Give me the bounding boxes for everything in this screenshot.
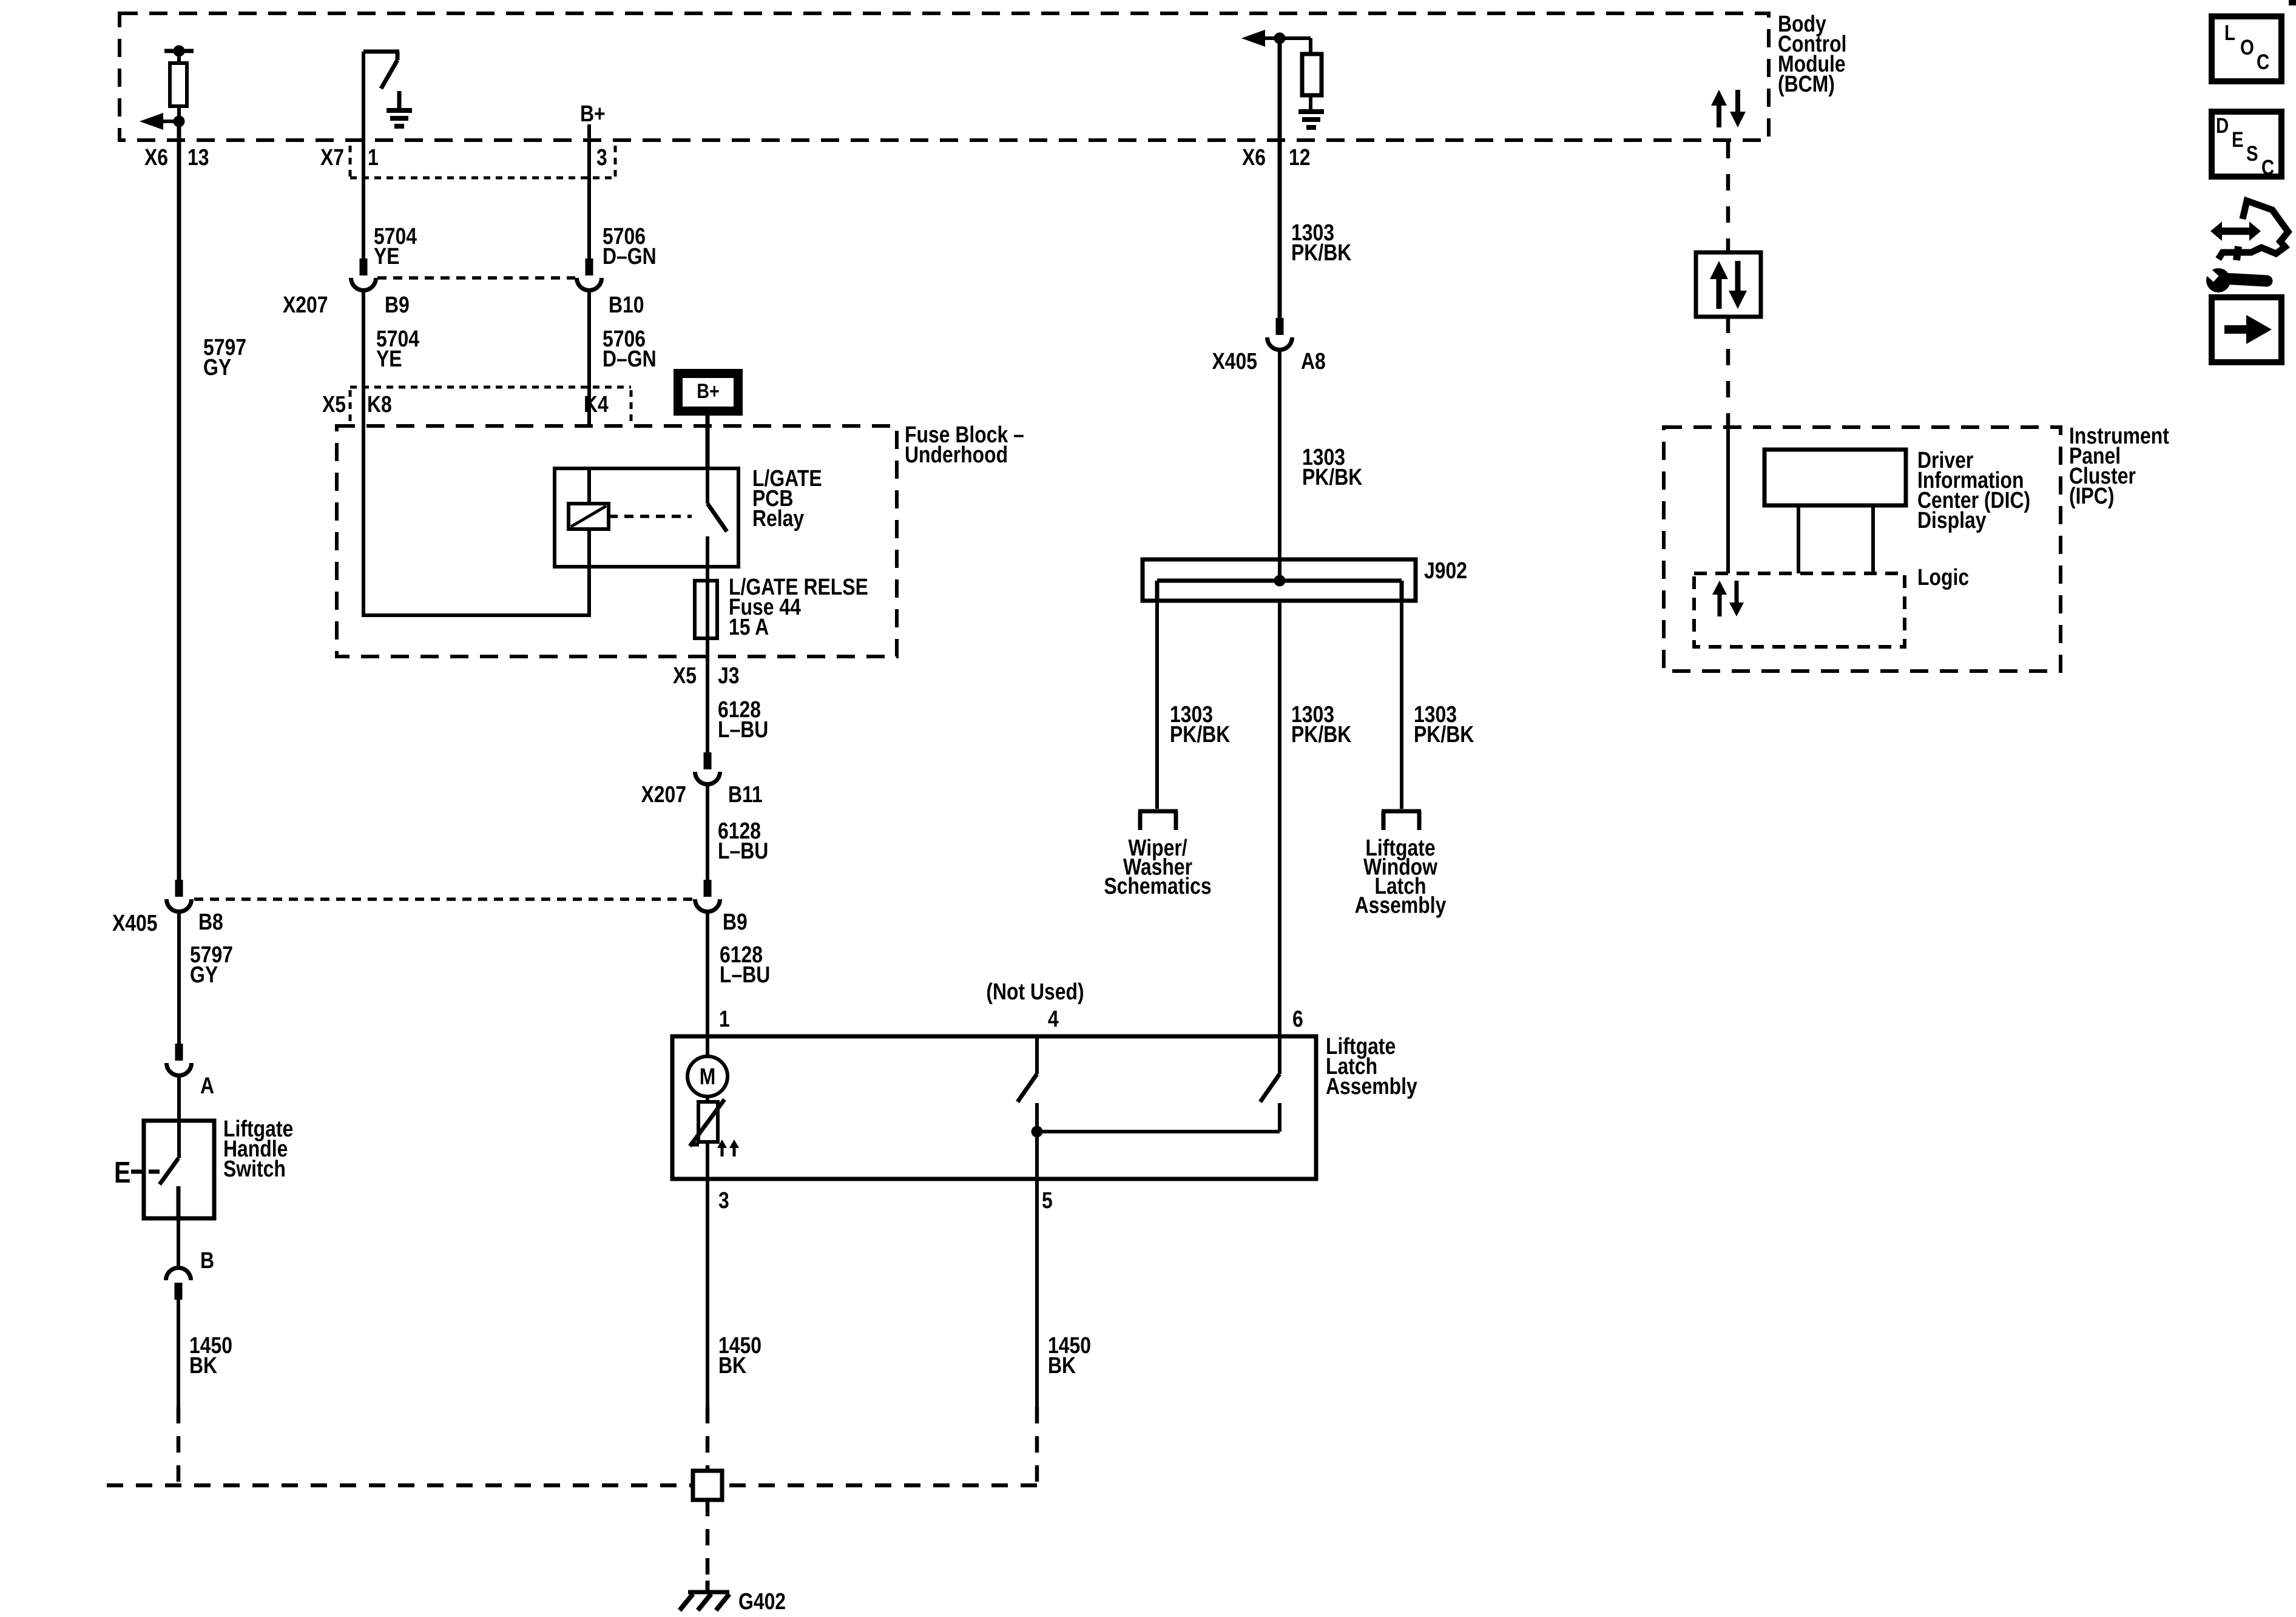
svg-text:X207: X207	[283, 292, 328, 317]
svg-text:X405: X405	[1212, 348, 1257, 374]
junction dot	[1274, 33, 1286, 44]
fuse L/GATE RELSE Fuse 44 15A	[695, 581, 717, 638]
svg-text:(IPC): (IPC)	[2069, 483, 2114, 508]
dashed connector tie X207	[377, 276, 575, 280]
svg-text:PK/BK: PK/BK	[1170, 721, 1230, 747]
svg-text:B8: B8	[198, 909, 223, 934]
latch switch pin 4	[1018, 1036, 1037, 1179]
svg-text:X6: X6	[144, 144, 168, 170]
Liftgate Handle Switch box	[144, 1121, 214, 1218]
connector X207 B11	[695, 752, 720, 785]
connector X5 pin labels K8,K4	[322, 391, 609, 417]
svg-text:Display: Display	[1917, 507, 1987, 533]
svg-text:PK/BK: PK/BK	[1291, 240, 1351, 265]
logic arrows	[1712, 581, 1744, 616]
relay coil	[569, 468, 609, 615]
svg-text:L–BU: L–BU	[720, 962, 770, 987]
connector X207 B11 labels	[641, 781, 762, 807]
wire label 5704 YE (lower)	[376, 326, 419, 371]
svg-text:D–GN: D–GN	[603, 243, 657, 269]
latch switch pin 6	[1260, 1036, 1280, 1132]
wire label 5704 YE (upper)	[374, 223, 417, 269]
svg-text:Switch: Switch	[223, 1156, 286, 1181]
resistor (BCM internal, X6-13 output)	[164, 46, 194, 122]
label: Body Control Module (BCM)	[1778, 11, 1846, 96]
svg-text:12: 12	[1289, 144, 1311, 170]
wire label 6128 L-BU (3)	[720, 942, 770, 987]
wire X7-3 down	[587, 124, 591, 258]
pin B label	[200, 1247, 214, 1273]
wire A to switch	[177, 1076, 181, 1158]
svg-text:6: 6	[1292, 1006, 1303, 1031]
svg-text:S: S	[2246, 142, 2258, 166]
connector X405 B9 label	[723, 909, 748, 934]
wire label 6128 L-BU (2)	[718, 818, 768, 863]
connector X405 B9	[695, 880, 720, 911]
label: Logic	[1917, 564, 1969, 590]
connector X207 B9	[351, 258, 376, 291]
wire B11 to X405 B9	[706, 785, 709, 880]
connector pin A	[167, 1044, 192, 1075]
ground (BCM internal)	[387, 91, 412, 126]
label: Wiper/Washer Schematics	[1104, 835, 1211, 899]
power feed B+ box	[678, 374, 738, 411]
svg-text:D–GN: D–GN	[603, 346, 657, 371]
connector X6 pin 13 labels	[144, 144, 209, 170]
svg-text:D: D	[2216, 114, 2229, 138]
wire label 5706 D-GN (lower)	[603, 326, 657, 371]
wire B down (solid)	[177, 1300, 180, 1407]
latch pin labels 3,5	[718, 1187, 1053, 1213]
connector X7 bracket	[350, 146, 615, 178]
svg-text:K8: K8	[367, 391, 392, 417]
wire B8 to handle switch pin A	[177, 912, 181, 1044]
svg-text:C: C	[2261, 156, 2274, 180]
label: Instrument Panel Cluster (IPC)	[2069, 423, 2169, 508]
label: L/GATE RELSE Fuse 44 15 A	[729, 574, 868, 640]
wire B down dashed to splice row	[107, 1407, 693, 1485]
svg-text:PK/BK: PK/BK	[1302, 464, 1362, 490]
svg-text:K4: K4	[584, 391, 609, 417]
J902 junction dot	[1274, 575, 1286, 587]
svg-text:13: 13	[187, 144, 209, 170]
connector X207 B10	[577, 258, 602, 291]
svg-text:1: 1	[368, 144, 379, 170]
svg-text:J902: J902	[1424, 558, 1467, 583]
svg-text:G402: G402	[738, 1588, 786, 1614]
svg-text:YE: YE	[374, 243, 400, 269]
connector X405 A8 labels	[1212, 348, 1325, 374]
wire label 1450 BK (pin5)	[1048, 1332, 1091, 1378]
connector X5 pin J3 labels	[673, 663, 740, 688]
switch to ground (BCM internal, X7-1)	[363, 52, 399, 89]
node B+ (X7-3 feed)	[580, 101, 606, 126]
svg-text:X405: X405	[112, 910, 158, 936]
handle switch blade	[160, 1158, 178, 1184]
svg-text:O: O	[2240, 36, 2254, 59]
pin A label	[200, 1073, 214, 1098]
connector X405 B8 labels	[112, 909, 223, 936]
svg-text:X5: X5	[322, 391, 346, 417]
latch pin labels 1,4,6	[719, 1006, 1303, 1031]
svg-text:B11: B11	[728, 781, 763, 807]
resistor (BCM internal, X6-12 pull)	[1302, 38, 1322, 109]
wire K8 coil return loop	[362, 426, 591, 615]
label: Driver Information Center (DIC) Display	[1917, 447, 2030, 533]
icon LOC box	[2212, 16, 2281, 81]
svg-text:L: L	[2224, 21, 2235, 45]
svg-text:B+: B+	[697, 380, 719, 403]
svg-text:BK: BK	[1048, 1352, 1076, 1378]
junction dot pin4/5	[1032, 1126, 1043, 1138]
arrow to left (BCM internal)	[140, 113, 185, 130]
relay L/GATE PCB Relay box	[555, 468, 738, 567]
Instrument Panel Cluster dashed box	[1664, 427, 2061, 671]
svg-text:J3: J3	[718, 663, 740, 688]
connector X405 A8	[1268, 318, 1292, 350]
svg-text:M: M	[700, 1064, 716, 1089]
ground (BCM internal right)	[1298, 112, 1324, 127]
svg-text:(BCM): (BCM)	[1778, 71, 1835, 96]
wire splice to ground (dashed)	[706, 1500, 710, 1585]
connector X5 bracket	[350, 387, 631, 424]
svg-text:B: B	[200, 1247, 214, 1273]
svg-text:15 A: 15 A	[729, 614, 769, 640]
wire J902 to latch pin 6	[1278, 601, 1281, 1036]
svg-text:A8: A8	[1301, 348, 1326, 374]
svg-text:L–BU: L–BU	[718, 717, 768, 742]
icon forward arrow box	[2212, 297, 2281, 362]
wire switch to pin B	[177, 1218, 180, 1268]
connector X207 labels	[283, 292, 644, 317]
wire label 1303 PK/BK (branch mid)	[1291, 701, 1351, 747]
dashed data link BCM to box	[1726, 142, 1730, 252]
motor M	[687, 1036, 728, 1096]
label: Liftgate Window Latch Assembly	[1355, 835, 1447, 918]
relay switch contact	[707, 468, 727, 567]
svg-text:L–BU: L–BU	[718, 838, 768, 863]
PTC arrows	[717, 1139, 739, 1156]
svg-text:BK: BK	[189, 1352, 217, 1378]
svg-text:GY: GY	[203, 354, 231, 380]
svg-text:X7: X7	[320, 144, 344, 170]
off-page bracket (wiper/washer)	[1138, 811, 1178, 830]
svg-text:X5: X5	[673, 663, 697, 688]
data link arrows (BCM internal)	[1711, 90, 1746, 127]
serial data box with arrows	[1696, 252, 1761, 317]
svg-text:Relay: Relay	[752, 505, 805, 531]
PTC thermistor	[690, 1096, 724, 1179]
svg-text:B9: B9	[723, 909, 748, 934]
wire B9 to latch pin 1	[706, 912, 709, 1036]
Fuse Block Underhood dashed box	[337, 426, 897, 657]
label G402	[738, 1588, 786, 1614]
off-page bracket (liftgate window latch)	[1382, 811, 1421, 830]
wire J902 left branch	[1155, 601, 1159, 809]
label: Liftgate Handle Switch	[223, 1116, 293, 1181]
wire pin3 dashed to splice	[706, 1407, 710, 1471]
wire J3 to B11	[706, 657, 709, 752]
wire pin 3 down	[706, 1179, 709, 1407]
svg-text:E: E	[2232, 128, 2244, 152]
svg-text:Logic: Logic	[1917, 564, 1969, 590]
svg-text:C: C	[2257, 50, 2269, 74]
svg-text:Assembly: Assembly	[1355, 893, 1447, 918]
dashed connector tie X405	[194, 897, 693, 901]
wire label 1450 BK (motor)	[718, 1332, 761, 1378]
svg-text:4: 4	[1048, 1006, 1059, 1031]
svg-text:3: 3	[596, 144, 607, 170]
dashed actuation link	[609, 515, 692, 518]
splice pack J902	[1143, 559, 1416, 601]
svg-text:A: A	[200, 1073, 214, 1098]
svg-text:B+: B+	[580, 101, 606, 126]
wire data link inside IPC	[1726, 427, 1730, 573]
svg-text:E: E	[114, 1156, 130, 1189]
svg-text:Assembly: Assembly	[1326, 1073, 1417, 1099]
svg-text:X207: X207	[641, 781, 686, 807]
wire X7-1 down	[362, 52, 365, 258]
Logic dashed box	[1694, 573, 1905, 647]
svg-text:BK: BK	[718, 1352, 746, 1378]
wire label 5706 D-GN (upper)	[603, 223, 657, 269]
connector X405 B8	[167, 880, 192, 911]
handle switch lower contact	[177, 1186, 181, 1218]
wire label 1450 BK (left)	[189, 1332, 232, 1378]
label: Liftgate Latch Assembly	[1326, 1033, 1417, 1099]
wire J902 right branch	[1400, 601, 1403, 809]
wire pin6 contact to pin5 node	[1037, 1130, 1280, 1133]
icon hand with arrow and wrench	[2200, 201, 2288, 292]
svg-text:PK/BK: PK/BK	[1414, 721, 1474, 747]
svg-text:Underhood: Underhood	[905, 442, 1008, 467]
svg-text:1: 1	[719, 1006, 730, 1031]
wire label 5797 GY (upper)	[203, 334, 246, 380]
wire pin 5 down	[1035, 1179, 1039, 1407]
wire A8 to J902	[1278, 350, 1281, 581]
connector X7 pin labels 1,3	[320, 144, 607, 170]
Body Control Module (BCM) dashed box	[120, 13, 1769, 140]
wire label 1303 PK/BK (upper right)	[1291, 220, 1351, 265]
svg-text:3: 3	[718, 1187, 729, 1213]
svg-text:5: 5	[1042, 1187, 1053, 1213]
svg-text:GY: GY	[190, 962, 218, 987]
wire label 1303 PK/BK (branch right)	[1414, 701, 1474, 747]
wire pin5 dashed to splice	[722, 1407, 1037, 1487]
wire relay to fuse	[706, 567, 709, 657]
svg-text:B10: B10	[609, 292, 644, 317]
page corner mark	[2289, 0, 2296, 5]
wire X6-13 down to X405 B8	[177, 121, 181, 880]
splice box	[693, 1471, 722, 1500]
DIC display box	[1764, 450, 1906, 505]
label: Fuse Block - Underhood	[905, 422, 1024, 467]
wire B10 to K4	[587, 291, 591, 426]
wire B9 to K8	[362, 291, 365, 426]
wire label 6128 L-BU (1)	[718, 697, 768, 742]
wire X6-12 down to X405 A8	[1278, 38, 1282, 318]
svg-text:Schematics: Schematics	[1104, 873, 1211, 899]
Liftgate Latch Assembly box	[672, 1036, 1316, 1179]
svg-text:X6: X6	[1242, 144, 1266, 170]
label (Not Used)	[986, 979, 1084, 1004]
wire label 5797 GY (lower)	[190, 942, 233, 987]
svg-text:YE: YE	[376, 346, 402, 371]
icon DESC box	[2212, 112, 2281, 180]
DIC display legs	[1798, 505, 1873, 573]
wire label 1303 PK/BK (mid)	[1302, 444, 1362, 490]
label J902	[1424, 558, 1467, 583]
arrow to left (BCM internal right)	[1241, 30, 1311, 47]
connector X6 pin 12 labels	[1242, 144, 1311, 170]
label: L/GATE PCB Relay	[752, 465, 822, 531]
svg-text:B9: B9	[385, 292, 410, 317]
ground G402	[680, 1581, 729, 1610]
wire B+ to relay switch	[706, 416, 710, 468]
svg-text:(Not Used): (Not Used)	[986, 979, 1084, 1004]
connector pin B (flipped)	[166, 1268, 191, 1300]
svg-text:PK/BK: PK/BK	[1291, 721, 1351, 747]
node E actuation	[114, 1156, 164, 1189]
wire label 1303 PK/BK (branch left)	[1170, 701, 1230, 747]
dashed data link box to IPC	[1726, 317, 1730, 427]
